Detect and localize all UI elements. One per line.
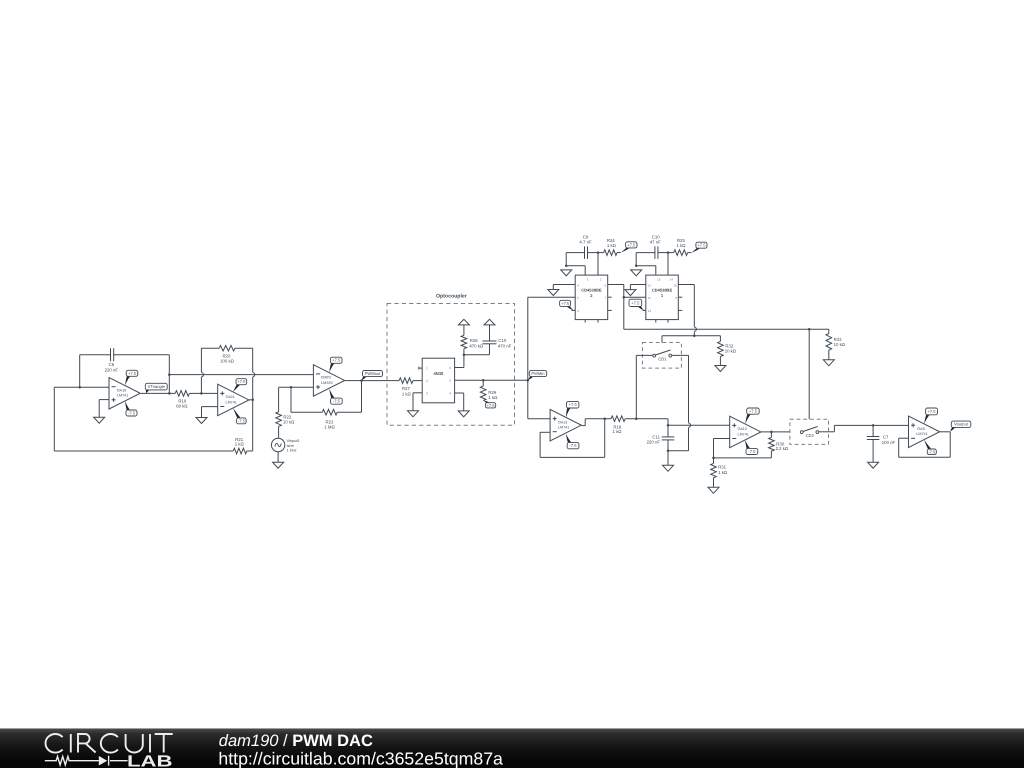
svg-text:CD2: CD2 bbox=[806, 433, 815, 438]
svg-text:+7.5: +7.5 bbox=[237, 379, 246, 384]
resistor R21 bbox=[233, 437, 247, 454]
wire R31 top lead bbox=[713, 458, 715, 464]
capacitor C11 bbox=[647, 435, 675, 445]
junction OA11 output bbox=[251, 399, 254, 402]
wire OA11 output stub bbox=[249, 399, 253, 401]
svg-text:LM741: LM741 bbox=[738, 432, 749, 436]
svg-text:10: 10 bbox=[673, 283, 677, 287]
chip2 pin3 stub bbox=[572, 309, 576, 311]
svg-text:+7.5: +7.5 bbox=[487, 403, 496, 408]
op-amp OA11 bbox=[218, 384, 249, 416]
svg-text:1 kΩ: 1 kΩ bbox=[718, 470, 728, 475]
junction control net bbox=[693, 334, 696, 337]
ground chip2 pin1 bbox=[561, 270, 572, 276]
svg-text:9: 9 bbox=[675, 296, 677, 300]
wire VTriangle long net bbox=[169, 374, 313, 376]
power flag -7.5 OA10 bbox=[125, 401, 137, 416]
svg-text:12: 12 bbox=[648, 283, 652, 287]
wire R30 bottom lead bbox=[770, 451, 772, 458]
svg-text:1 kΩ: 1 kΩ bbox=[613, 429, 623, 434]
svg-text:1: 1 bbox=[587, 278, 589, 282]
power flag +7.5 CMP2 bbox=[329, 357, 342, 372]
resistor R28 bbox=[461, 335, 484, 348]
wire R28 top lead bbox=[463, 325, 465, 335]
svg-text:470 nF: 470 nF bbox=[498, 343, 512, 348]
svg-text:220 nF: 220 nF bbox=[647, 440, 661, 445]
wire OA11 output vertical bbox=[252, 348, 254, 451]
junction R29 top bbox=[482, 379, 485, 382]
wire CD1 left vertical bbox=[635, 355, 637, 418]
ground R31 bbox=[708, 487, 719, 493]
svg-text:-7.5: -7.5 bbox=[570, 443, 578, 448]
ground C7 bbox=[868, 462, 879, 468]
svg-text:3: 3 bbox=[577, 309, 579, 313]
wire OA13 feedback loop bbox=[540, 419, 605, 458]
wire delay net horizontal bbox=[624, 328, 829, 330]
svg-text:4: 4 bbox=[449, 392, 451, 396]
resistor R32 bbox=[718, 341, 737, 356]
wire opto pin3 down bbox=[412, 393, 414, 411]
logo diode arrow bbox=[99, 756, 107, 766]
svg-text:-7.5: -7.5 bbox=[238, 418, 246, 423]
wire C8 left segment bbox=[80, 354, 111, 356]
svg-text:1 kΩ: 1 kΩ bbox=[677, 243, 687, 248]
wire C11 top lead bbox=[667, 419, 669, 437]
svg-text:68 kΩ: 68 kΩ bbox=[176, 403, 188, 408]
svg-text:OA11: OA11 bbox=[226, 395, 235, 399]
ground Vinput bbox=[273, 462, 284, 468]
ground opto pin4 bbox=[458, 411, 469, 417]
ground chip2 pin4 bbox=[548, 290, 559, 296]
wire chip2 pin1/C9 link bbox=[566, 265, 585, 267]
wire C9 left lead bbox=[566, 252, 584, 254]
wire chip1 pin14 lead bbox=[667, 253, 669, 276]
wire R20 top left bbox=[201, 347, 219, 349]
CircuitLab logo resistor-diode symbol bbox=[45, 756, 128, 766]
source Vinput1 sine 1 kHz bbox=[271, 438, 299, 452]
power flag +7.5 OA10 bbox=[125, 370, 138, 385]
wire R24 right lead bbox=[617, 252, 621, 254]
svg-text:R28: R28 bbox=[470, 338, 478, 343]
resistor R25 bbox=[674, 238, 688, 256]
wire hop at R20 left bbox=[201, 373, 203, 377]
wire hop CD1 right over OA12 input bbox=[689, 423, 691, 427]
svg-text:+7.5: +7.5 bbox=[928, 409, 937, 414]
wire R32 top lead bbox=[719, 336, 721, 342]
svg-text:2: 2 bbox=[600, 278, 602, 282]
power flag +7.5 chip1 pin13 bbox=[629, 299, 644, 310]
svg-text:OA9: OA9 bbox=[917, 427, 924, 431]
ground OA11 bbox=[196, 418, 207, 424]
svg-text:6: 6 bbox=[604, 283, 606, 287]
svg-text:Optocoupler: Optocoupler bbox=[436, 294, 467, 300]
wire CD2 to OA9 bbox=[834, 424, 908, 426]
svg-text:2: 2 bbox=[426, 379, 428, 383]
capacitor C10 (timing) bbox=[650, 235, 661, 259]
svg-text:1: 1 bbox=[426, 367, 428, 371]
wire R19 to OA11 bbox=[189, 392, 217, 394]
svg-text:220 nF: 220 nF bbox=[105, 368, 119, 373]
wire hop at OA11 output vertical bbox=[253, 373, 255, 377]
resistor R24 bbox=[604, 238, 617, 256]
wire C9 right lead bbox=[588, 252, 599, 254]
chip2 unconnected stubs bbox=[585, 297, 612, 322]
wire R29 top lead bbox=[482, 380, 484, 386]
wire OA12 output bbox=[761, 431, 791, 433]
wire OA10 noninv to ground bbox=[98, 400, 100, 418]
wire C11 to ground bbox=[667, 451, 669, 466]
svg-text:+7.5: +7.5 bbox=[627, 242, 636, 247]
junction CD2 control tap bbox=[808, 328, 811, 331]
svg-text:47 nF: 47 nF bbox=[650, 240, 661, 245]
svg-text:100 kΩ: 100 kΩ bbox=[220, 359, 235, 364]
power flag -7.5 OA11 bbox=[233, 408, 246, 424]
ground R32 bbox=[715, 366, 726, 372]
wire OA11 inv input bbox=[202, 406, 218, 408]
capacitor C7 bbox=[867, 435, 896, 445]
junction OA10 inv input / feedback bbox=[78, 386, 81, 389]
svg-text:+7.5: +7.5 bbox=[749, 409, 758, 414]
resistor R19 bbox=[175, 391, 189, 409]
svg-text:2.2 kΩ: 2.2 kΩ bbox=[776, 446, 789, 451]
wire opto pin4 right bbox=[455, 392, 464, 394]
svg-text:4N35: 4N35 bbox=[434, 371, 445, 376]
net label PWMin bbox=[528, 371, 547, 381]
wire R25 left lead bbox=[668, 252, 674, 254]
footer bar bbox=[0, 728, 1024, 768]
wire opto pin6 right bbox=[455, 367, 464, 369]
svg-text:+7.5: +7.5 bbox=[631, 300, 640, 305]
wire OA10 feedback left vertical bbox=[79, 355, 81, 388]
junction CD1 left tap bbox=[635, 417, 638, 420]
junction chip2 pin2 node bbox=[597, 251, 600, 254]
junction PWMout node bbox=[360, 379, 363, 382]
wire opto pin3 left bbox=[413, 392, 422, 394]
svg-text:100 nF: 100 nF bbox=[882, 440, 896, 445]
wire R33 top lead bbox=[828, 329, 830, 333]
net label Voutput bbox=[950, 421, 971, 432]
svg-text:4: 4 bbox=[577, 283, 579, 287]
wire PWMout down to R23 bbox=[361, 381, 363, 413]
svg-text:15: 15 bbox=[657, 278, 661, 282]
power arrow above R28 bbox=[458, 319, 469, 325]
svg-text:OA10: OA10 bbox=[117, 388, 126, 392]
wire OA10 inverting input bbox=[54, 386, 109, 388]
resistor R27 bbox=[399, 378, 413, 397]
svg-text:5: 5 bbox=[577, 296, 579, 300]
power flag +7.5 OA9 bbox=[924, 408, 938, 424]
junction C9 ground node bbox=[565, 265, 568, 268]
wire C11 node to OA12 bbox=[668, 424, 730, 426]
wire chip1 pin10 right bbox=[678, 284, 694, 286]
wire C10a left down bbox=[635, 253, 637, 266]
svg-text:+7.5: +7.5 bbox=[561, 301, 570, 306]
junction C11 bottom node bbox=[667, 449, 670, 452]
wire R23 right bbox=[337, 411, 361, 413]
chip1 unconnected stubs bbox=[656, 297, 683, 322]
net label VTriangle bbox=[145, 383, 167, 393]
svg-text:CD4538BE: CD4538BE bbox=[581, 287, 602, 292]
op-amp OA10 bbox=[109, 378, 140, 410]
junction R30 top bbox=[770, 431, 773, 434]
wire chip1 pin15 lead bbox=[655, 266, 657, 275]
svg-text:10 kΩ: 10 kΩ bbox=[283, 420, 295, 425]
svg-text:10 kΩ: 10 kΩ bbox=[834, 342, 846, 347]
wire opto pin5 to PWMin bbox=[455, 379, 528, 381]
svg-text:LM741: LM741 bbox=[226, 400, 237, 404]
junction R31 top bbox=[712, 457, 715, 460]
svg-text:CMP2: CMP2 bbox=[321, 376, 331, 380]
power flag -7.5 CMP2 bbox=[329, 389, 342, 405]
junction C10 ground node bbox=[635, 265, 638, 268]
wire OA12 inv down bbox=[713, 439, 715, 458]
switch CD2 (dashed box) bbox=[790, 419, 829, 444]
IC U2 CD4538BE monostable 2 bbox=[575, 275, 608, 320]
wire OA9 feedback loop bbox=[899, 432, 951, 458]
svg-text:C8: C8 bbox=[109, 362, 115, 367]
resistor R30 bbox=[769, 437, 789, 451]
wire C7 top lead bbox=[872, 425, 874, 436]
svg-text:13: 13 bbox=[648, 309, 652, 313]
svg-text:1 kΩ: 1 kΩ bbox=[235, 442, 245, 447]
wire R22 to Vinput bbox=[278, 426, 280, 438]
capacitor C10 (opto) bbox=[483, 338, 512, 348]
wire CD2 right up bbox=[833, 425, 835, 431]
junction OA13 feedback bbox=[603, 417, 606, 420]
wire C10 bottom lead bbox=[489, 344, 491, 355]
op-amp OA12 bbox=[730, 416, 761, 448]
svg-text:OA13: OA13 bbox=[558, 420, 567, 424]
wire C11 bottom lead bbox=[667, 440, 669, 451]
IC U3 CD4538BE monostable 1 bbox=[646, 275, 679, 320]
wire chip1 pin12 left bbox=[630, 284, 645, 286]
wire chip2 pin4 left bbox=[553, 284, 575, 286]
wire PWMin vertical bbox=[527, 297, 529, 419]
svg-text:dam190 / PWM DAC: dam190 / PWM DAC bbox=[219, 732, 373, 750]
ground R33 bbox=[823, 360, 834, 366]
resistor R33 bbox=[826, 334, 846, 351]
svg-text:+7.5: +7.5 bbox=[128, 371, 137, 376]
comparator CMP2 bbox=[313, 365, 344, 397]
resistor R29 bbox=[480, 386, 498, 401]
ground C11 bbox=[663, 465, 674, 471]
power flag -7.5 OA13 bbox=[566, 434, 579, 449]
capacitor C8 bbox=[105, 348, 119, 372]
wire PWMin to chip2 pin5 bbox=[528, 296, 575, 298]
wire chip1 pin10 down bbox=[693, 285, 695, 336]
wire R23 tap vertical bbox=[290, 387, 292, 412]
wire R33 bottom lead bbox=[828, 350, 830, 360]
svg-text:+7.5: +7.5 bbox=[569, 402, 578, 407]
wire chip2 pin2 lead bbox=[597, 253, 599, 276]
svg-text:470 kΩ: 470 kΩ bbox=[469, 343, 484, 348]
wire OA13 output elbow bbox=[582, 419, 611, 426]
resistor R31 bbox=[711, 463, 728, 477]
wire R21 right bbox=[247, 450, 253, 452]
wire CD2 control vertical bbox=[808, 329, 810, 419]
wire R31 bottom lead bbox=[713, 478, 715, 488]
svg-text:LM741: LM741 bbox=[117, 394, 128, 398]
svg-text:5: 5 bbox=[449, 379, 451, 383]
svg-text:6: 6 bbox=[449, 366, 451, 370]
svg-text:http://circuitlab.com/c3652e5t: http://circuitlab.com/c3652e5tqm87a bbox=[218, 749, 503, 769]
wire CMP2 output bbox=[345, 380, 400, 382]
wire C8 right segment bbox=[114, 354, 170, 356]
opto pin1 stub bbox=[419, 367, 422, 370]
svg-text:4.7 nF: 4.7 nF bbox=[579, 240, 592, 245]
junction PWMin corner bbox=[527, 379, 530, 382]
wire R32 bottom lead bbox=[719, 357, 721, 366]
power flag +7.5 chip2 pin3 bbox=[560, 300, 574, 310]
junction VTriangle net bottom bbox=[168, 392, 171, 395]
junction R28 bottom bbox=[463, 353, 466, 356]
wire C7 bottom lead bbox=[872, 440, 874, 463]
wire OA12 inv input bbox=[714, 438, 730, 440]
wire PWMin to OA13 bbox=[528, 418, 550, 420]
svg-text:11: 11 bbox=[648, 296, 651, 300]
wire left rail vertical bbox=[53, 387, 55, 451]
svg-text:1 kΩ: 1 kΩ bbox=[402, 392, 412, 397]
junction C7 tap bbox=[872, 424, 875, 427]
svg-text:-7.5: -7.5 bbox=[128, 410, 136, 415]
power flag +7.5 OA11 bbox=[233, 379, 247, 392]
power flag -7.5 OA9 bbox=[924, 440, 936, 455]
wire R20 top right bbox=[235, 347, 253, 349]
svg-text:CD1: CD1 bbox=[658, 357, 667, 362]
wire R25 right lead bbox=[688, 252, 692, 254]
wire CD1 control bbox=[661, 336, 663, 343]
wire CD2 right lead bbox=[819, 431, 835, 433]
wire chip2 pin4 down bbox=[552, 285, 554, 290]
svg-text:OA12: OA12 bbox=[737, 427, 746, 431]
svg-text:LM741: LM741 bbox=[558, 426, 569, 430]
wire chip1 pin15/C10 link bbox=[636, 265, 656, 267]
svg-text:1 kΩ: 1 kΩ bbox=[607, 243, 617, 248]
wire chip1 pin11 lead bbox=[624, 296, 646, 298]
junction chip1 pin11 tap bbox=[623, 296, 626, 299]
power flag +7.5 R24 bbox=[621, 242, 637, 253]
svg-text:PWMout: PWMout bbox=[365, 371, 382, 376]
optocoupler enclosure dashed box bbox=[387, 294, 515, 426]
wire OA12 feedback bottom bbox=[714, 457, 772, 459]
svg-text:Voutput: Voutput bbox=[954, 422, 969, 427]
wire output up to feedback bbox=[168, 355, 170, 394]
svg-text:3: 3 bbox=[426, 392, 428, 396]
svg-text:-7.5: -7.5 bbox=[748, 449, 756, 454]
wire R18 to C11 node bbox=[625, 418, 668, 420]
ground chip1 pin15 bbox=[631, 270, 642, 276]
power arrow above C10 bbox=[484, 319, 495, 325]
svg-text:7: 7 bbox=[604, 296, 606, 300]
power flag -7.5 OA12 bbox=[745, 440, 758, 455]
wire C11 bottom to CD1 right bbox=[668, 450, 689, 452]
resistor R18 bbox=[611, 416, 625, 434]
wire CD1 right lead bbox=[672, 354, 689, 356]
junction R19/R20 node bbox=[200, 392, 203, 395]
wire OA10 output bbox=[141, 392, 175, 394]
wire R27 to opto pin2 bbox=[413, 380, 422, 382]
wire R20 left vertical bbox=[200, 348, 202, 393]
svg-text:PWMin: PWMin bbox=[531, 371, 545, 376]
wire R23 left bbox=[291, 411, 322, 413]
wire R28/C10 bottom link bbox=[464, 354, 490, 356]
wire R30 top lead bbox=[770, 432, 772, 438]
wire chip2 pin6 right bbox=[608, 284, 624, 286]
wire R22 top node bbox=[279, 386, 314, 388]
wire R24 left lead bbox=[598, 252, 604, 254]
svg-text:+7.5: +7.5 bbox=[332, 358, 341, 363]
svg-text:+7.5: +7.5 bbox=[697, 243, 706, 248]
wire chip2 pin6 down bbox=[623, 285, 625, 330]
net label PWMout bbox=[362, 371, 383, 381]
svg-text:VTriangle: VTriangle bbox=[148, 384, 166, 389]
CircuitLab logo CIRCUIT wordmark bbox=[45, 734, 172, 753]
wire OA9 output bbox=[940, 431, 951, 433]
power flag +7.5 OA13 bbox=[566, 401, 579, 417]
power flag +7.5 OA12 bbox=[745, 408, 759, 424]
wire bottom rail to R21 bbox=[54, 450, 233, 452]
svg-text:10 kΩ: 10 kΩ bbox=[725, 348, 737, 353]
optocoupler U1 4N35 bbox=[422, 358, 454, 403]
switch CD1 (dashed box) bbox=[642, 343, 681, 369]
wire CD1 left lead bbox=[636, 354, 652, 356]
wire opto pin6 up bbox=[463, 355, 465, 368]
resistor R20 bbox=[219, 345, 235, 363]
wire opto pin4 down bbox=[463, 393, 465, 411]
svg-text:1 kHz: 1 kHz bbox=[287, 447, 297, 452]
resistor R23 bbox=[322, 409, 337, 429]
wire CD1 right vertical bbox=[688, 355, 690, 450]
wire chip1 pin12 down bbox=[629, 285, 631, 290]
wire OA10 noninv input bbox=[99, 399, 109, 401]
power flag +7.5 R29 bbox=[483, 401, 495, 408]
svg-text:-7.5: -7.5 bbox=[333, 399, 341, 404]
wire hop pin10 over delay net bbox=[694, 327, 696, 331]
power flag +7.5 R25 bbox=[692, 242, 708, 252]
wire C10a right lead bbox=[658, 252, 668, 254]
svg-text:LAB: LAB bbox=[127, 753, 173, 769]
svg-text:LM339: LM339 bbox=[321, 381, 332, 385]
chip1 pin13 stub bbox=[643, 309, 646, 311]
wire control net horizontal bbox=[662, 335, 720, 337]
wire R28 bottom lead bbox=[463, 349, 465, 355]
svg-text:LM741: LM741 bbox=[916, 432, 927, 436]
wire C10a left lead bbox=[636, 252, 655, 254]
svg-text:-7.5: -7.5 bbox=[928, 449, 936, 454]
svg-text:CD4538BE: CD4538BE bbox=[652, 287, 673, 292]
svg-text:14: 14 bbox=[670, 278, 674, 282]
op-amp OA9 bbox=[909, 416, 940, 448]
wire C10 top lead bbox=[489, 325, 491, 341]
capacitor C9 bbox=[579, 235, 592, 259]
wire Vinput to ground bbox=[277, 452, 279, 463]
ground OA10 bbox=[94, 417, 105, 423]
junction R23 tap bbox=[290, 386, 293, 389]
svg-text:R27: R27 bbox=[402, 386, 410, 391]
wire OA11 inv to ground bbox=[201, 407, 203, 418]
svg-text:1 MΩ: 1 MΩ bbox=[324, 424, 335, 429]
wire chip2 pin1 lead bbox=[584, 266, 586, 275]
svg-text:1 kΩ: 1 kΩ bbox=[488, 395, 498, 400]
junction VTriangle net top bbox=[168, 373, 171, 376]
junction chip1 pin14 node bbox=[667, 251, 670, 254]
ground chip1 pin12 bbox=[625, 290, 636, 296]
svg-text:C10: C10 bbox=[498, 338, 506, 343]
junction C11 top node bbox=[667, 424, 670, 427]
ground opto pin3 bbox=[408, 411, 419, 417]
op-amp OA13 bbox=[550, 409, 581, 441]
wire R22 upper lead bbox=[278, 387, 280, 412]
